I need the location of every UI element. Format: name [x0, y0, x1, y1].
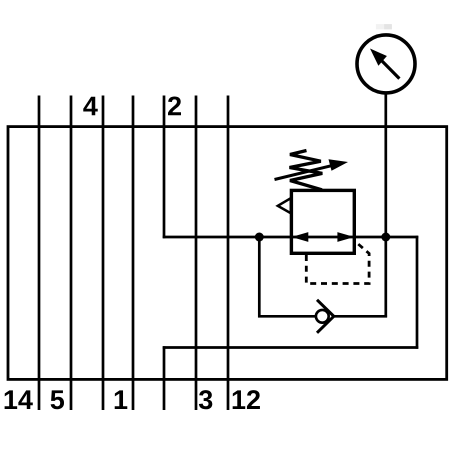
watermark gray block left [376, 24, 384, 29]
label 3 [199, 390, 212, 409]
adjustment arrow head [329, 159, 349, 171]
port line 2 lower segment (x=164) [163, 346, 166, 410]
label 5 [51, 390, 64, 409]
label 4 [83, 97, 97, 116]
wire: check-valve run right part at y=316.3 [334, 315, 387, 318]
manifold body rectangle [8, 127, 447, 380]
vent triangle [278, 198, 291, 213]
gauge needle shaft [382, 61, 400, 79]
regulator valve body U1 [291, 190, 354, 253]
gauge needle head [370, 49, 387, 66]
wire: check-valve branch right riser / gauge line at x=385.8 [384, 93, 387, 318]
label 14 [5, 390, 33, 409]
port line 5 (x=71) [70, 96, 73, 411]
port line 14 (x=39) [38, 96, 41, 411]
label 1 [115, 390, 128, 409]
regulator arrow right [337, 232, 354, 242]
port line 12 (x=228) [227, 96, 230, 411]
port line 2 upper segment (x=164) [163, 96, 166, 239]
label 12 [233, 390, 260, 409]
wire: lower return run at y=347.5 [163, 346, 419, 349]
check valve circle [316, 310, 329, 323]
adjustment spring [290, 151, 323, 190]
wire: check-valve run left part at y=316.3 [258, 315, 315, 318]
watermark gray block right [384, 24, 392, 29]
regulator arrow left [292, 232, 309, 242]
port line 3 (x=196) [195, 96, 198, 411]
node junction dot right [381, 233, 390, 242]
wire: regulator input/output run at y=237 [163, 236, 419, 239]
pressure gauge [357, 35, 415, 93]
pilot line (dashed) [306, 242, 369, 283]
check valve seat [317, 300, 334, 333]
port line 1 (x=133) [132, 96, 135, 411]
wire: right return drop at x=417 [416, 236, 419, 349]
node junction dot left [255, 233, 264, 242]
wire: check-valve branch left drop at x=259.3 [258, 237, 261, 318]
label 2 [168, 96, 181, 115]
adjustment arrow shaft [275, 165, 334, 179]
port line 4 (x=103) [102, 96, 105, 411]
